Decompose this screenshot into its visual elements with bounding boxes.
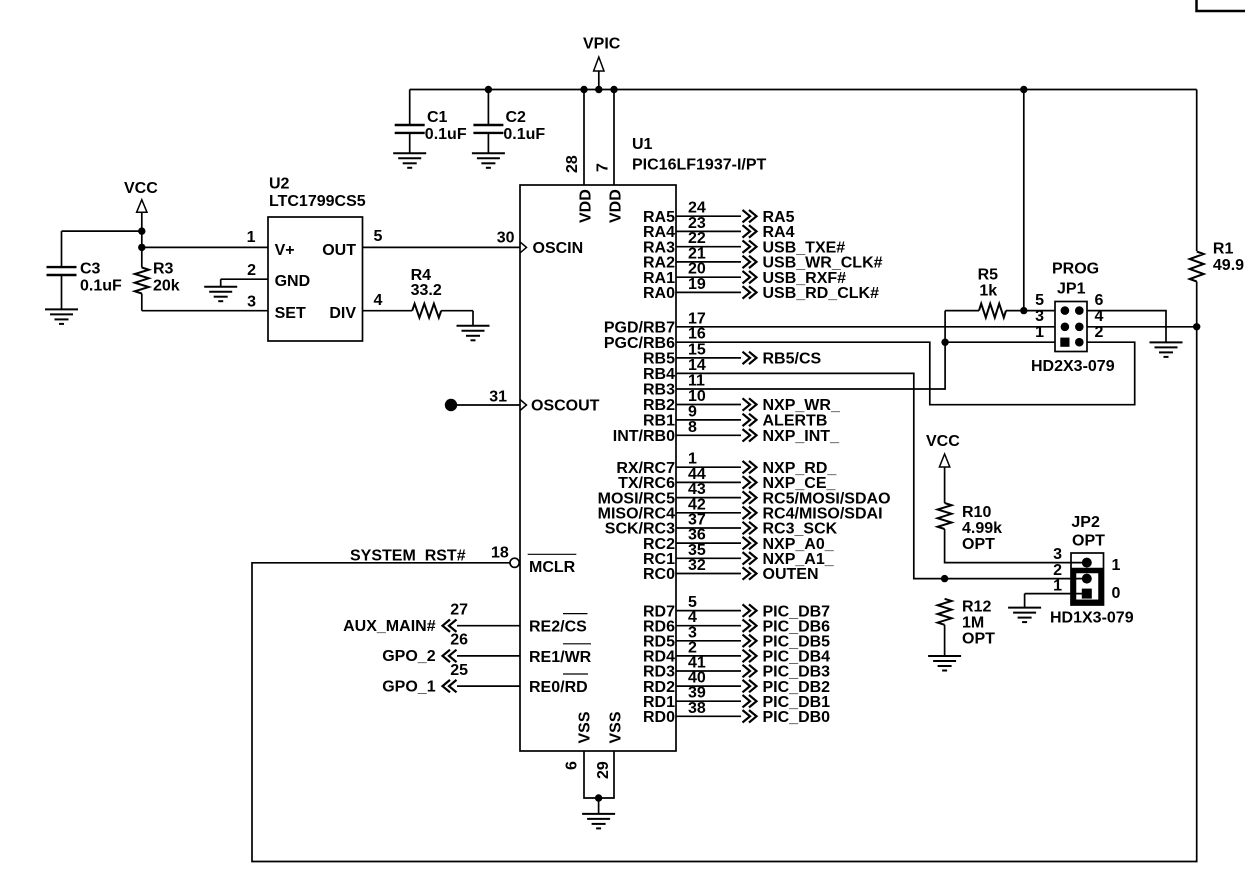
- ground: [45, 309, 78, 324]
- RE1 WR overbar: [563, 643, 591, 645]
- svg-text:15: 15: [688, 341, 706, 358]
- svg-text:4.99k: 4.99k: [962, 520, 1002, 537]
- wire OUTEN: [676, 573, 741, 575]
- svg-text:1k: 1k: [979, 283, 997, 300]
- resistor R10: [938, 503, 952, 529]
- wire PIC_DB6: [676, 625, 741, 627]
- capacitor C1: [395, 90, 425, 154]
- svg-text:20k: 20k: [153, 278, 180, 295]
- input chevron GPO_1: [443, 680, 457, 692]
- output chevron NXP_INT_: [743, 429, 757, 441]
- svg-text:RE0/RD: RE0/RD: [529, 679, 588, 696]
- svg-text:DIV: DIV: [329, 305, 356, 322]
- resistor R5: [979, 304, 1006, 318]
- U1 OSCOUT input wedge: [520, 400, 527, 411]
- connector JP2 box: [1071, 553, 1104, 605]
- wire C3 to VCC node: [62, 230, 142, 232]
- output chevron RC4/MISO/SDAI: [743, 507, 757, 519]
- resistor R4: [412, 304, 441, 318]
- output chevron PIC_DB5: [743, 635, 757, 647]
- svg-text:RB4: RB4: [643, 366, 675, 383]
- JP2 pin dots: [1082, 558, 1092, 568]
- wire VCC to R3: [141, 212, 143, 267]
- output chevron NXP_CE_: [743, 476, 757, 488]
- svg-text:14: 14: [688, 357, 706, 374]
- svg-text:RD0: RD0: [643, 709, 675, 726]
- svg-text:R1: R1: [1213, 241, 1234, 258]
- svg-text:JP1: JP1: [1057, 280, 1086, 297]
- svg-text:PGC/RB6: PGC/RB6: [604, 335, 675, 352]
- svg-text:RC0: RC0: [643, 566, 675, 583]
- microcontroller U1 box: [520, 185, 676, 751]
- svg-text:8: 8: [688, 419, 697, 436]
- ground: [472, 153, 505, 168]
- svg-text:PIC_DB0: PIC_DB0: [763, 709, 831, 726]
- wire to JP1 pin1: [945, 341, 1055, 343]
- svg-text:0: 0: [1112, 585, 1121, 602]
- svg-text:OSCIN: OSCIN: [533, 240, 584, 257]
- wire PGC/RB6 to JP1 pin2: [676, 342, 1135, 405]
- wire PIC_DB4: [676, 655, 741, 657]
- output chevron RA5: [743, 210, 757, 222]
- junction VDD7 on rail: [610, 86, 617, 93]
- JP2 shunt jumper (thick): [1074, 571, 1102, 603]
- junction V+ tap: [138, 244, 145, 251]
- junction R1 bottom / MCLR net: [1193, 323, 1200, 330]
- junction VDD28 on rail: [580, 86, 587, 93]
- output chevron PIC_DB7: [743, 604, 757, 616]
- wire VPIC top rail: [410, 89, 1197, 91]
- svg-text:38: 38: [688, 700, 706, 717]
- svg-text:3: 3: [1035, 308, 1044, 325]
- svg-text:29: 29: [595, 761, 612, 779]
- svg-text:16: 16: [688, 326, 706, 343]
- svg-text:USB_RD_CLK#: USB_RD_CLK#: [763, 285, 880, 302]
- svg-text:26: 26: [450, 632, 468, 649]
- output chevron USB_TXE#: [743, 241, 757, 253]
- wire RC5/MOSI/SDAO: [676, 497, 741, 499]
- wire VCC to R10: [944, 467, 946, 503]
- junction RB3/PGC-row/JP1 pin1: [941, 339, 948, 346]
- wire USB_RXF#: [676, 276, 741, 278]
- junction R12 top: [941, 575, 948, 582]
- ground: [582, 798, 615, 828]
- RE2 CS overbar: [563, 613, 588, 615]
- svg-text:U2: U2: [269, 176, 290, 193]
- wire GND pin2: [221, 278, 268, 280]
- svg-text:V+: V+: [275, 242, 295, 259]
- wire R5 to JP1 pin5: [1006, 310, 1055, 312]
- svg-text:6: 6: [1095, 292, 1104, 309]
- wire NXP_RD_: [676, 466, 741, 468]
- output chevron NXP_RD_: [743, 461, 757, 473]
- wire R5 left lead: [945, 310, 979, 312]
- wire R10 to JP2 pin3: [945, 529, 1086, 563]
- wire JP1 pin6 to ground: [1087, 311, 1166, 343]
- svg-text:R3: R3: [153, 260, 174, 277]
- wire VDD pin28: [583, 90, 585, 186]
- wire V+ pin1: [142, 246, 268, 248]
- svg-text:R5: R5: [978, 267, 999, 284]
- svg-text:VCC: VCC: [926, 433, 960, 450]
- junction VPIC drop on rail: [1020, 86, 1027, 93]
- resistor R12: [938, 599, 952, 625]
- svg-text:GPO_1: GPO_1: [382, 678, 435, 695]
- svg-text:0.1uF: 0.1uF: [503, 126, 545, 143]
- svg-text:2: 2: [1053, 562, 1062, 579]
- svg-text:27: 27: [450, 602, 468, 619]
- svg-text:VDD: VDD: [578, 189, 595, 223]
- wire NXP_A0_: [676, 542, 741, 544]
- wire VSS pins to ground bar: [584, 751, 614, 798]
- RE0 RD overbar: [563, 673, 588, 675]
- output chevron NXP_A0_: [743, 537, 757, 549]
- svg-text:SYSTEM_RST#: SYSTEM_RST#: [350, 547, 466, 564]
- output chevron USB_WR_CLK#: [743, 256, 757, 268]
- svg-text:VPIC: VPIC: [583, 35, 621, 52]
- svg-text:1: 1: [247, 229, 256, 246]
- svg-text:OUTEN: OUTEN: [763, 566, 819, 583]
- svg-text:2: 2: [247, 262, 256, 279]
- wire VPIC stub: [598, 71, 600, 90]
- svg-text:RB5: RB5: [643, 351, 675, 368]
- wire R1 to junction: [1196, 282, 1198, 327]
- svg-text:VCC: VCC: [124, 180, 158, 197]
- svg-text:C1: C1: [427, 109, 448, 126]
- output chevron RB5/CS: [743, 352, 757, 364]
- svg-text:5: 5: [374, 228, 383, 245]
- JP1 pin dots: [1061, 306, 1070, 315]
- U1 MCLR inversion bubble: [510, 558, 519, 567]
- input chevron GPO_2: [443, 650, 457, 662]
- wire NXP_CE_: [676, 481, 741, 483]
- ground: [1150, 342, 1183, 357]
- svg-text:C3: C3: [80, 261, 101, 278]
- junction VPIC stub on rail: [595, 86, 602, 93]
- resistor R3: [135, 268, 149, 294]
- svg-text:HD2X3-079: HD2X3-079: [1031, 358, 1115, 375]
- svg-text:VSS: VSS: [577, 711, 594, 743]
- wire OSCOUT stub: [451, 404, 520, 406]
- wire MCLR net loop: [252, 327, 1197, 862]
- wire USB_TXE#: [676, 246, 741, 248]
- output chevron RC3_SCK: [743, 522, 757, 534]
- svg-text:AUX_MAIN#: AUX_MAIN#: [343, 618, 436, 635]
- output chevron PIC_DB2: [743, 680, 757, 692]
- svg-text:VDD: VDD: [608, 189, 625, 223]
- svg-text:1: 1: [1053, 578, 1062, 595]
- svg-text:7: 7: [595, 163, 612, 172]
- wire VDD pin7: [613, 90, 615, 186]
- wire R12 to ground: [944, 625, 946, 656]
- svg-text:1M: 1M: [962, 615, 984, 632]
- wire OUT to OSCIN: [363, 246, 521, 248]
- output chevron ALERTB: [743, 414, 757, 426]
- svg-text:19: 19: [688, 276, 706, 293]
- svg-text:1: 1: [1112, 557, 1121, 574]
- wire PIC_DB7: [676, 610, 741, 612]
- node OSCOUT stub dot: [445, 399, 457, 411]
- svg-text:R12: R12: [962, 599, 991, 616]
- svg-text:SET: SET: [275, 305, 306, 322]
- wire RA5: [676, 215, 741, 217]
- wire PIC_DB5: [676, 640, 741, 642]
- sheet border corner: [1197, 0, 1245, 11]
- wire JP1 pin4 to R1 node: [1087, 326, 1197, 328]
- output chevron OUTEN: [743, 567, 757, 579]
- svg-text:3: 3: [247, 294, 256, 311]
- wire NXP_A1_: [676, 557, 741, 559]
- svg-text:25: 25: [450, 662, 468, 679]
- MCLR overbar: [528, 553, 577, 555]
- wire GPO_1: [457, 685, 520, 687]
- svg-text:RE1/WR: RE1/WR: [529, 649, 592, 666]
- svg-text:0.1uF: 0.1uF: [425, 126, 467, 143]
- wire ALERTB: [676, 419, 741, 421]
- svg-text:NXP_INT_: NXP_INT_: [763, 428, 841, 445]
- wire PGD/RB7 to JP1 pin3: [676, 326, 1055, 328]
- output chevron RA4: [743, 225, 757, 237]
- svg-text:MCLR: MCLR: [529, 559, 576, 576]
- junction VSS bar: [595, 794, 602, 801]
- wire NXP_INT_: [676, 434, 741, 436]
- wire R4 to ground: [441, 310, 473, 312]
- output chevron PIC_DB0: [743, 710, 757, 722]
- svg-text:OUT: OUT: [322, 242, 356, 259]
- capacitor C2: [473, 90, 503, 154]
- svg-text:INT/RB0: INT/RB0: [613, 428, 675, 445]
- svg-text:JP2: JP2: [1071, 514, 1100, 531]
- svg-text:OPT: OPT: [962, 631, 995, 648]
- wire PIC_DB1: [676, 700, 741, 702]
- svg-text:PROG: PROG: [1052, 260, 1099, 277]
- wire NXP_WR_: [676, 404, 741, 406]
- wire GPO_2: [457, 655, 520, 657]
- svg-text:PIC16LF1937-I/PT: PIC16LF1937-I/PT: [632, 157, 767, 174]
- svg-text:18: 18: [491, 545, 509, 562]
- wire SET pin3: [142, 310, 268, 312]
- svg-text:RE2/CS: RE2/CS: [529, 619, 587, 636]
- svg-text:11: 11: [688, 373, 705, 390]
- wire DIV to R4: [363, 310, 413, 312]
- svg-text:28: 28: [564, 155, 581, 173]
- resistor R1: [1190, 252, 1204, 282]
- ground: [393, 153, 426, 168]
- output chevron USB_RD_CLK#: [743, 286, 757, 298]
- wire R3 to SET: [141, 294, 143, 311]
- svg-text:31: 31: [489, 389, 507, 406]
- wire VPIC drop to R5: [1023, 90, 1025, 311]
- ground: [1008, 594, 1041, 623]
- svg-text:GPO_2: GPO_2: [382, 648, 435, 665]
- svg-text:RB5/CS: RB5/CS: [763, 351, 822, 368]
- svg-text:R10: R10: [962, 504, 991, 521]
- junction C2 on rail: [485, 86, 492, 93]
- svg-text:5: 5: [1035, 292, 1044, 309]
- power flag VCC: [137, 200, 147, 213]
- output chevron USB_RXF#: [743, 271, 757, 283]
- U1 OSCIN input wedge: [520, 242, 527, 253]
- ground: [204, 279, 237, 301]
- svg-text:U1: U1: [632, 136, 653, 153]
- wire RC3_SCK: [676, 527, 741, 529]
- svg-text:32: 32: [688, 557, 706, 574]
- wire PIC_DB2: [676, 685, 741, 687]
- svg-text:0.1uF: 0.1uF: [80, 277, 122, 294]
- svg-text:GND: GND: [275, 273, 311, 290]
- wire USB_RD_CLK#: [676, 291, 741, 293]
- wire JP2 pin1 to ground: [1025, 593, 1086, 595]
- wire USB_WR_CLK#: [676, 261, 741, 263]
- svg-text:4: 4: [374, 292, 383, 309]
- svg-text:3: 3: [1053, 546, 1062, 563]
- output chevron PIC_DB6: [743, 620, 757, 632]
- junction R5/VPIC drop: [1020, 307, 1027, 314]
- ground: [457, 311, 490, 341]
- input chevron AUX_MAIN#: [443, 620, 457, 632]
- svg-text:RA0: RA0: [643, 285, 675, 302]
- power flag VCC: [939, 454, 949, 467]
- svg-text:LTC1799CS5: LTC1799CS5: [269, 193, 366, 210]
- output chevron PIC_DB1: [743, 695, 757, 707]
- svg-text:6: 6: [564, 761, 581, 770]
- wire RB5/CS: [676, 357, 741, 359]
- wire RA4: [676, 230, 741, 232]
- wire PIC_DB3: [676, 670, 741, 672]
- connector JP1 PROG box: [1055, 302, 1087, 352]
- power flag VPIC: [594, 57, 604, 71]
- capacitor C3: [47, 231, 77, 309]
- svg-text:OSCOUT: OSCOUT: [531, 398, 600, 415]
- output chevron NXP_WR_: [743, 398, 757, 410]
- wire PIC_DB0: [676, 715, 741, 717]
- svg-text:OPT: OPT: [1072, 533, 1105, 550]
- svg-text:HD1X3-079: HD1X3-079: [1050, 610, 1134, 627]
- wire RB3 up to R5: [676, 311, 945, 389]
- wire RC4/MISO/SDAI: [676, 512, 741, 514]
- svg-text:1: 1: [1035, 324, 1044, 341]
- wire AUX_MAIN#: [457, 625, 520, 627]
- output chevron RC5/MOSI/SDAO: [743, 491, 757, 503]
- svg-text:49.9: 49.9: [1213, 257, 1244, 274]
- output chevron PIC_DB3: [743, 665, 757, 677]
- svg-text:OPT: OPT: [962, 536, 995, 553]
- svg-text:VSS: VSS: [608, 711, 625, 743]
- output chevron NXP_A1_: [743, 552, 757, 564]
- wire RB4 to JP2 pin2: [676, 373, 1086, 578]
- svg-text:33.2: 33.2: [411, 282, 442, 299]
- svg-text:30: 30: [497, 229, 515, 246]
- output chevron PIC_DB4: [743, 650, 757, 662]
- wire rail to R1: [1196, 90, 1198, 252]
- svg-text:C2: C2: [506, 109, 527, 126]
- svg-text:RB3: RB3: [643, 382, 675, 399]
- junction C3 tap: [138, 227, 145, 234]
- ground: [928, 656, 961, 671]
- oscillator U2 box: [268, 217, 363, 341]
